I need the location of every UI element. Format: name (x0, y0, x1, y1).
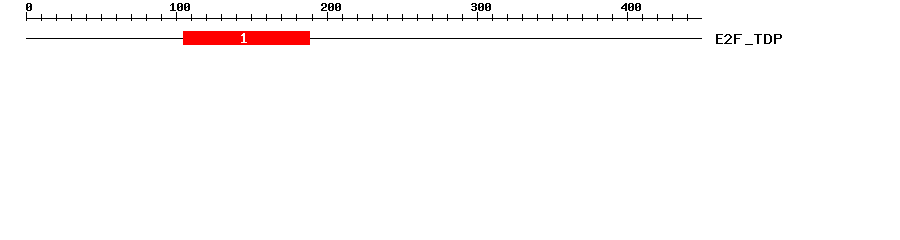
ruler minor tick at residue 310 (492, 14, 493, 21)
ruler minor tick at residue 60 (116, 14, 117, 21)
sequence backbone line (26, 38, 702, 39)
ruler major tick at residue 100 (176, 12, 177, 21)
background (0, 0, 900, 58)
ruler label 400 (621, 3, 641, 11)
ruler minor tick at residue 20 (56, 14, 57, 21)
ruler minor tick at residue 150 (251, 14, 252, 21)
ruler minor tick at residue 390 (612, 14, 613, 21)
ruler minor tick at residue 50 (101, 14, 102, 21)
ruler axis line (26, 18, 702, 19)
ruler minor tick at residue 130 (221, 14, 222, 21)
ruler minor tick at residue 240 (387, 14, 388, 21)
ruler major tick at residue 400 (627, 12, 628, 21)
ruler minor tick at residue 30 (71, 14, 72, 21)
ruler minor tick at residue 320 (507, 14, 508, 21)
ruler label 0 (26, 3, 32, 11)
ruler minor tick at residue 40 (86, 14, 87, 21)
ruler label 100 (170, 3, 190, 11)
ruler minor tick at residue 160 (266, 14, 267, 21)
motif number 1 label (241, 33, 247, 43)
ruler minor tick at residue 440 (687, 14, 688, 21)
ruler minor tick at residue 110 (191, 14, 192, 21)
ruler minor tick at residue 420 (657, 14, 658, 21)
ruler minor tick at residue 350 (552, 14, 553, 21)
ruler minor tick at residue 220 (357, 14, 358, 21)
ruler minor tick at residue 180 (296, 14, 297, 21)
ruler minor tick at residue 430 (672, 14, 673, 21)
ruler minor tick at residue 330 (522, 14, 523, 21)
ruler minor tick at residue 270 (432, 14, 433, 21)
ruler minor tick at residue 290 (462, 14, 463, 21)
ruler label 200 (321, 3, 341, 11)
ruler major tick at residue 0 (26, 12, 27, 21)
ruler major tick at residue 300 (477, 12, 478, 21)
sequence name E2F_TDP (716, 34, 782, 45)
ruler minor tick at residue 230 (372, 14, 373, 21)
ruler minor tick at residue 360 (567, 14, 568, 21)
motif box 1 (red domain block, residues ~105-189) (183, 31, 310, 45)
ruler minor tick at residue 190 (312, 14, 313, 21)
ruler minor tick at residue 170 (281, 14, 282, 21)
ruler minor tick at residue 120 (206, 14, 207, 21)
ruler minor tick at residue 210 (342, 14, 343, 21)
ruler label 300 (471, 3, 491, 11)
ruler minor tick at residue 250 (402, 14, 403, 21)
ruler major tick at residue 200 (327, 12, 328, 21)
ruler minor tick at residue 80 (146, 14, 147, 21)
ruler minor tick at residue 370 (582, 14, 583, 21)
ruler minor tick at residue 70 (131, 14, 132, 21)
ruler minor tick at residue 340 (537, 14, 538, 21)
ruler minor tick at residue 260 (417, 14, 418, 21)
ruler minor tick at residue 380 (597, 14, 598, 21)
ruler minor tick at residue 410 (642, 14, 643, 21)
ruler minor tick at residue 10 (41, 14, 42, 21)
ruler minor tick at residue 90 (161, 14, 162, 21)
ruler minor tick at residue 280 (447, 14, 448, 21)
ruler minor tick at residue 140 (236, 14, 237, 21)
